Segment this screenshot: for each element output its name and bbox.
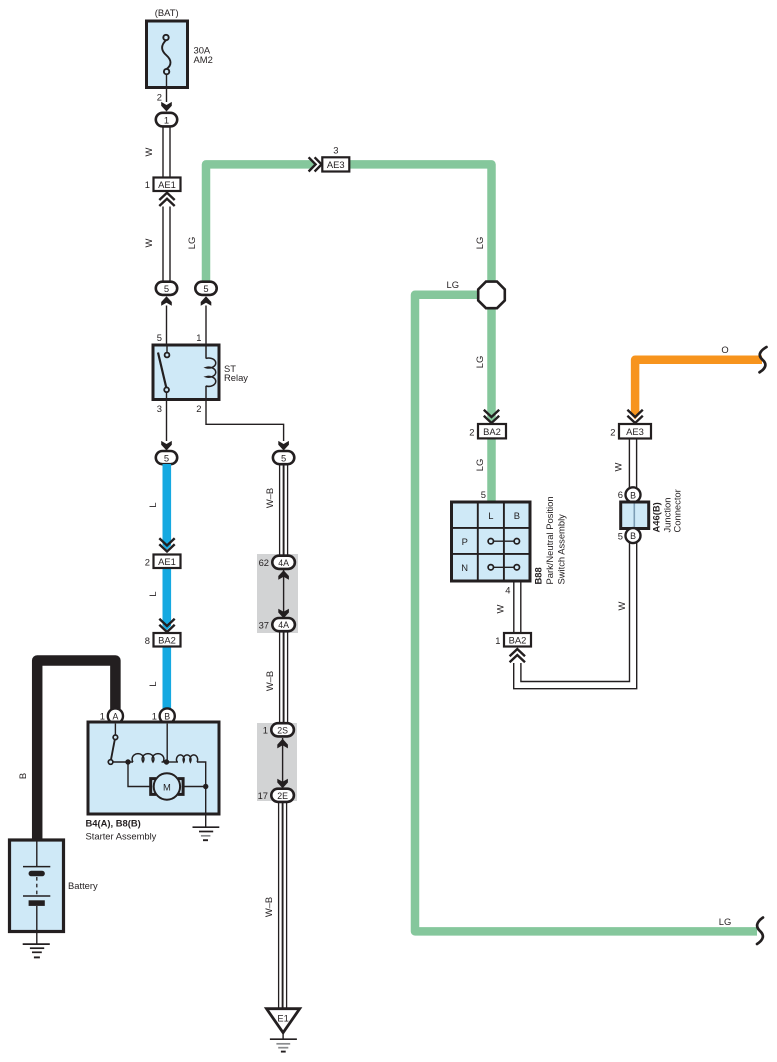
svg-text:AE3: AE3	[327, 159, 345, 170]
svg-text:W: W	[616, 601, 627, 610]
wire inside 4A junction	[283, 570, 285, 618]
wire LG from octagon node down to BA2	[487, 305, 496, 417]
chevron pair right into AE3	[309, 157, 322, 171]
svg-text:(BAT): (BAT)	[155, 7, 179, 18]
terminal B circle	[160, 708, 175, 723]
arrow down to oval5	[278, 441, 289, 451]
svg-text:BA2: BA2	[158, 635, 176, 646]
contact N row	[488, 565, 519, 570]
svg-text:5: 5	[157, 332, 162, 343]
arrow up from relay pin1 wire	[201, 296, 212, 306]
svg-text:AM2: AM2	[194, 54, 213, 65]
field coil 1	[132, 754, 164, 762]
svg-text:E1: E1	[277, 1013, 288, 1024]
field coil 2	[176, 755, 197, 762]
svg-text:2: 2	[145, 557, 150, 568]
break squiggle orange	[760, 347, 767, 372]
battery symbol	[23, 841, 50, 932]
svg-text:5: 5	[164, 283, 169, 294]
svg-text:W: W	[613, 462, 624, 471]
wire B black battery cable	[37, 661, 115, 841]
svg-text:1: 1	[152, 711, 157, 722]
svg-text:5: 5	[203, 283, 208, 294]
svg-text:2S: 2S	[277, 725, 288, 735]
svg-text:Starter Assembly: Starter Assembly	[86, 831, 157, 842]
node oval 4A pin62	[272, 556, 295, 569]
svg-text:6: 6	[618, 489, 623, 500]
svg-text:5: 5	[281, 452, 286, 463]
B88 park/neutral switch box	[452, 502, 531, 581]
wire oval5 to relay pin 1	[205, 306, 207, 346]
fuse AM2 30A box	[147, 21, 188, 88]
arrow down to oval 1	[161, 102, 172, 112]
wire fuse to arrow	[166, 74, 168, 102]
ground symbol battery	[36, 932, 38, 945]
svg-text:LG: LG	[474, 459, 485, 472]
connector 8 BA2	[154, 633, 181, 647]
wire relay pin3 down	[166, 399, 168, 441]
svg-text:AE1: AE1	[158, 179, 176, 190]
gray backing connector 2S-2E	[257, 723, 297, 801]
svg-text:L: L	[147, 502, 158, 507]
svg-text:L: L	[488, 510, 493, 521]
svg-text:2: 2	[610, 427, 615, 438]
svg-text:1: 1	[263, 725, 268, 736]
wire LG from relay pin1 up and right toward AE3	[206, 164, 311, 284]
node oval 4A pin37	[272, 618, 295, 631]
svg-text:B: B	[514, 510, 520, 521]
chevron pair down into BA2	[484, 410, 499, 423]
svg-text:4A: 4A	[278, 558, 289, 568]
node oval 2S pin1	[271, 723, 294, 736]
svg-text:5: 5	[618, 530, 623, 541]
svg-text:A: A	[112, 712, 118, 722]
junction dot	[164, 759, 169, 764]
wire L blue relay to starter terminal B	[163, 464, 172, 709]
node oval 2E pin17	[271, 789, 294, 802]
wire LG from octagon node left and down to bottom right off-page	[415, 295, 757, 932]
ground symbol starter	[193, 826, 220, 828]
junction pin5 circle B	[626, 528, 641, 543]
MIDDLE-WB	[206, 399, 300, 1052]
svg-text:P: P	[462, 536, 468, 547]
arrow down into 2E	[277, 779, 288, 789]
chevron pair up into BA2	[510, 649, 525, 662]
arrow up from relay pin5 wire	[161, 296, 172, 306]
svg-text:62: 62	[259, 557, 269, 568]
motor bracket right	[178, 779, 183, 795]
wire W-B 2E to E1	[279, 802, 287, 1009]
chevron pair down into AE3	[627, 410, 642, 423]
chevron pair up into AE1	[159, 193, 174, 206]
relay switch contact	[158, 347, 169, 400]
svg-text:LG: LG	[446, 279, 459, 290]
wire W double-line elbow BA2 to junction connector pin5	[514, 543, 637, 689]
svg-text:B: B	[630, 531, 636, 541]
connector 1 BA2	[504, 633, 531, 647]
motor M	[154, 773, 180, 799]
wire W double-line oval1 to AE1	[162, 127, 164, 178]
connector 2 AE3	[619, 424, 651, 439]
svg-text:1: 1	[495, 635, 500, 646]
svg-text:Relay: Relay	[224, 372, 248, 383]
octagon splice node	[478, 282, 505, 309]
svg-text:LG: LG	[186, 237, 197, 250]
svg-text:4: 4	[505, 585, 510, 596]
svg-text:1: 1	[145, 179, 150, 190]
STARTER-BATTERY	[10, 661, 220, 958]
svg-text:BA2: BA2	[509, 635, 527, 646]
svg-text:W: W	[143, 147, 154, 156]
starter internal wires	[113, 724, 206, 828]
RIGHT-SIDE	[309, 145, 767, 945]
wire W double-line AE3 to junction pin6	[628, 439, 630, 488]
wire LG from BA2 down to B88 switch pin 5	[487, 437, 496, 502]
svg-text:1: 1	[100, 711, 105, 722]
svg-text:B: B	[630, 490, 636, 500]
svg-text:A46(B): A46(B)	[651, 502, 662, 532]
junction pin6 circle B	[626, 487, 641, 502]
svg-text:Park/Neutral Position: Park/Neutral Position	[544, 496, 555, 584]
arrow up below 2S	[277, 739, 288, 749]
svg-text:W: W	[143, 238, 154, 247]
connector 1 AE1	[154, 178, 181, 192]
svg-text:2: 2	[469, 427, 474, 438]
GREEN-NET	[206, 160, 757, 931]
svg-text:2: 2	[157, 92, 162, 103]
relay coil	[206, 347, 216, 400]
svg-text:W–B: W–B	[264, 488, 275, 508]
svg-text:W–B: W–B	[263, 897, 274, 917]
wire relay pin2 elbow to oval5	[206, 399, 284, 441]
node oval 5 left	[156, 282, 177, 295]
wire LG from AE3 right then down to octagon	[350, 164, 492, 284]
starter assembly box	[88, 722, 219, 814]
svg-text:M: M	[163, 782, 171, 793]
svg-text:LG: LG	[474, 237, 485, 250]
svg-text:5: 5	[164, 452, 169, 463]
fuse symbol	[162, 35, 170, 75]
connector 3 AE3	[322, 157, 349, 171]
ground symbol E1	[282, 1033, 284, 1040]
wire inside 2S-2E junction	[282, 738, 284, 788]
svg-text:2: 2	[196, 403, 201, 414]
svg-text:4A: 4A	[278, 620, 289, 630]
node oval 5	[156, 451, 177, 464]
svg-text:B: B	[164, 712, 170, 722]
svg-text:N: N	[461, 562, 468, 573]
junction connector A46(B) box	[621, 502, 649, 529]
ST relay box	[153, 345, 219, 400]
connector 2 BA2	[478, 424, 506, 438]
svg-text:17: 17	[258, 790, 268, 801]
svg-text:Connector: Connector	[672, 489, 683, 532]
svg-text:8: 8	[145, 635, 150, 646]
svg-text:L: L	[147, 591, 158, 596]
junction dot	[203, 784, 208, 789]
junction divider	[633, 504, 635, 528]
connector 2 AE1	[154, 555, 181, 569]
svg-text:B88: B88	[533, 567, 544, 584]
svg-text:5: 5	[481, 489, 486, 500]
svg-text:3: 3	[333, 145, 338, 156]
svg-text:B: B	[17, 773, 28, 779]
battery box	[10, 840, 64, 932]
arrow up below 4A-62	[278, 570, 289, 580]
chevron pair down into BA2	[159, 619, 174, 632]
contact P row	[488, 539, 519, 544]
svg-text:LG: LG	[474, 356, 485, 369]
chevron pair down into AE1	[159, 538, 174, 551]
svg-text:W–B: W–B	[264, 671, 275, 691]
svg-text:2E: 2E	[277, 791, 288, 801]
svg-text:3: 3	[157, 403, 162, 414]
svg-text:O: O	[721, 344, 728, 355]
starter switch contact	[108, 724, 117, 765]
switch grid lines	[452, 502, 531, 581]
svg-text:B4(A), B8(B): B4(A), B8(B)	[86, 818, 141, 829]
wire W-B oval5 to 4A	[280, 464, 288, 558]
gray backing connector 4A	[257, 554, 298, 633]
node oval 5 right	[195, 282, 216, 295]
wire O orange from off-page to AE3	[635, 360, 762, 415]
wire W double-line B88 pin4 to BA2	[513, 581, 515, 633]
node oval 1	[156, 113, 177, 127]
motor bracket left	[151, 779, 156, 795]
svg-text:1: 1	[196, 332, 201, 343]
svg-text:BA2: BA2	[483, 426, 501, 437]
LEFT-COLUMN	[143, 7, 248, 709]
svg-text:LG: LG	[719, 916, 732, 927]
ground point E1 triangle	[267, 1009, 300, 1033]
wire oval5 to relay pin 5	[166, 306, 168, 346]
arrow down to oval5	[161, 441, 172, 451]
svg-text:AE1: AE1	[158, 556, 176, 567]
wire W-B 4A to 2S	[280, 631, 288, 725]
svg-text:1: 1	[164, 114, 169, 125]
svg-text:W: W	[495, 604, 506, 613]
svg-text:L: L	[147, 681, 158, 686]
svg-text:Battery: Battery	[68, 880, 98, 891]
node oval 5	[273, 451, 294, 464]
svg-text:AE3: AE3	[626, 426, 644, 437]
wire W double-line AE1 to oval5	[162, 207, 164, 282]
svg-text:Switch Assembly: Switch Assembly	[556, 514, 567, 585]
break squiggle green	[757, 918, 763, 945]
junction dot	[125, 759, 130, 764]
svg-text:37: 37	[259, 619, 269, 630]
terminal A circle	[108, 708, 123, 723]
arrow down into 4A-37	[278, 609, 289, 619]
